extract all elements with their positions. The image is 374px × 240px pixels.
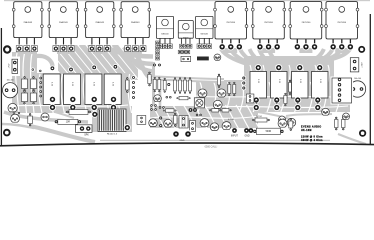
transistor Q1 2SA1943 xyxy=(12,2,43,38)
wire bands right fan xyxy=(221,49,350,78)
transistor Q11 MJE15033 xyxy=(196,16,214,38)
resistor R5 0.22R 5W xyxy=(250,64,267,111)
mounting pad bottom-right xyxy=(358,129,367,138)
resistor Rb3 xyxy=(184,77,187,93)
pad grid c xyxy=(150,104,164,110)
label 0500 CALL xyxy=(205,146,218,149)
resistor R16 10R xyxy=(55,119,81,124)
resistor R13 xyxy=(217,74,220,88)
pad column center xyxy=(131,75,136,100)
resistor R15 xyxy=(220,109,232,112)
svg-text:500R: 500R xyxy=(266,131,272,133)
svg-text:RL040 1.5: RL040 1.5 xyxy=(107,134,118,136)
pad c1 xyxy=(167,83,170,86)
resistor Ra1 xyxy=(153,77,156,92)
transistor Q4 2SA1943 xyxy=(120,2,151,38)
svg-text:2SC5200: 2SC5200 xyxy=(264,22,274,24)
wire band to bias network xyxy=(152,78,224,81)
resistor R4 0.22R 5W xyxy=(104,74,121,111)
pad column U1 xyxy=(156,41,160,60)
pads Q2 xyxy=(53,38,74,52)
resistor R6 0.22R 5W xyxy=(271,64,288,111)
resistor pair right xyxy=(335,117,346,130)
svg-text:SPK: SPK xyxy=(84,135,89,137)
resistor R3 0.22R 5W xyxy=(85,74,102,111)
transistor Q25 xyxy=(343,113,350,119)
pads Q7 xyxy=(294,39,318,51)
white pocket left xyxy=(37,52,66,71)
pads Q8 xyxy=(330,39,354,51)
pads Q6 xyxy=(256,39,280,51)
resistor R20 NFB xyxy=(253,128,283,134)
transistor Q13 xyxy=(214,54,221,60)
resistor Rc2 xyxy=(163,109,177,112)
svg-text:-75V: -75V xyxy=(9,63,11,68)
transistor Q20 xyxy=(200,119,209,127)
pads C xyxy=(153,64,161,67)
box VR2 xyxy=(179,116,188,129)
resistor Rc1 xyxy=(177,96,191,99)
connector -75V xyxy=(9,57,20,77)
svg-text:HK-16M: HK-16M xyxy=(301,129,312,132)
wire bands left-center shallow xyxy=(106,47,153,79)
transistor Q19 xyxy=(164,119,172,127)
resistor R18 xyxy=(28,113,33,126)
label 400W xyxy=(301,139,323,142)
pad cluster xyxy=(178,50,190,54)
svg-text:100+100: 100+100 xyxy=(7,80,14,82)
label 220W xyxy=(301,136,323,139)
pads Q10 xyxy=(180,38,192,48)
board right edge xyxy=(369,14,371,144)
transistor Q6 2SC5200 xyxy=(251,2,285,39)
svg-text:2SC5200: 2SC5200 xyxy=(302,22,312,24)
transistor Q14 xyxy=(198,89,207,97)
mounting pad top-right xyxy=(357,45,366,54)
traces bottom right xyxy=(258,112,366,144)
resistor column left 2 xyxy=(31,76,37,104)
trace gaps xyxy=(12,53,348,130)
label HK-16M xyxy=(301,129,312,132)
transistor Q5 2SC5200 xyxy=(214,2,248,39)
resistor R21 xyxy=(289,118,293,130)
resistor R19 xyxy=(174,113,178,127)
diode bridge box xyxy=(331,77,354,105)
resistor R17 xyxy=(66,110,91,115)
pads Q9 xyxy=(158,38,173,48)
svg-text:2SA1943: 2SA1943 xyxy=(131,21,140,24)
trace bars to output transistor legs xyxy=(20,48,348,54)
resistor R9 xyxy=(126,77,129,92)
capacitor C4 4.7/100 xyxy=(222,119,234,130)
transistor Q26 xyxy=(279,116,286,122)
resistor Rb1 xyxy=(174,77,177,93)
wire center column verticals xyxy=(154,62,161,108)
resistor R14 xyxy=(209,109,221,112)
svg-text:+75V: +75V xyxy=(361,62,363,68)
svg-text:INPUT: INPUT xyxy=(231,136,238,138)
capacitor C1 100+100 xyxy=(3,80,18,98)
copper plane under coil xyxy=(92,106,132,132)
transistor Q21 xyxy=(210,123,218,131)
transistor Q22 xyxy=(278,119,287,127)
svg-text:2SA1943: 2SA1943 xyxy=(59,21,68,24)
pad B4 xyxy=(31,68,35,72)
label EVENS AUDIO xyxy=(301,125,321,128)
transistor Q15 xyxy=(217,89,226,97)
resistor R2 0.22R 5W xyxy=(64,74,81,111)
transistor Q12 xyxy=(8,103,17,111)
resistor R7 0.22R 5W xyxy=(292,64,309,111)
inductor L1 xyxy=(91,109,131,136)
box VR3 xyxy=(190,121,196,132)
mounting pad top-left xyxy=(2,44,12,54)
resistor Rc4 xyxy=(233,82,236,96)
svg-text:MJE15033: MJE15033 xyxy=(201,33,208,35)
resistor Rc3 xyxy=(228,82,231,96)
transistor Q16 xyxy=(213,100,222,108)
copper ground plane right xyxy=(196,56,350,112)
svg-text:2SC5200: 2SC5200 xyxy=(226,22,236,24)
pad A2 xyxy=(50,66,56,72)
transistor Q24 xyxy=(322,108,330,115)
capacitor C3 xyxy=(41,113,49,121)
svg-text:2SA1943: 2SA1943 xyxy=(95,21,104,24)
pad column left xyxy=(39,77,42,98)
svg-text:MJE15032: MJE15032 xyxy=(161,33,168,35)
svg-text:EVENS AUDIO: EVENS AUDIO xyxy=(301,125,321,128)
transistor Q8 2SC5200 xyxy=(325,2,359,39)
pad INPUT xyxy=(231,128,238,138)
pad GND speaker xyxy=(172,130,192,142)
pad B xyxy=(113,64,119,70)
capacitor C2 100+100 xyxy=(348,78,368,99)
svg-text:GND: GND xyxy=(244,136,249,138)
svg-text:PVC/02: PVC/02 xyxy=(256,116,262,118)
connector +75V xyxy=(348,56,365,75)
pads misc left xyxy=(13,111,20,114)
transistor Q9 MJE15032 xyxy=(156,16,173,38)
jumper dark xyxy=(197,57,209,61)
wire S-trace in pocket xyxy=(30,56,53,69)
resistor column left xyxy=(22,76,28,104)
pads Q3 xyxy=(89,38,110,52)
resistor Rb2 xyxy=(179,77,182,93)
transistor Qc1 xyxy=(154,95,162,102)
connector SPK xyxy=(76,125,93,137)
trimmer VR1 xyxy=(194,98,204,108)
pad B3 xyxy=(38,69,42,73)
board bottom edge xyxy=(0,143,374,146)
resistor R23 xyxy=(284,93,287,106)
pad column right bank xyxy=(241,76,246,91)
pad A xyxy=(91,65,97,71)
pads D xyxy=(189,108,197,112)
pads Q5 xyxy=(219,39,243,51)
trace along bottom edge xyxy=(100,139,330,141)
mounting pad bottom-left xyxy=(2,128,11,137)
resistor R22 xyxy=(252,116,269,122)
svg-text:400W @ 4 Ohm: 400W @ 4 Ohm xyxy=(301,139,323,142)
box D1 xyxy=(246,94,254,103)
transistor Q17 xyxy=(11,114,20,122)
resistor R1 0.22R 5W xyxy=(43,74,60,111)
transistor Q10 MJE340 xyxy=(178,21,193,40)
svg-text:10R: 10R xyxy=(66,122,71,124)
svg-text:2SA1943: 2SA1943 xyxy=(24,21,33,24)
relay box xyxy=(181,56,191,61)
copper plane bottom center xyxy=(150,106,258,128)
box E xyxy=(137,116,146,125)
svg-text:100+100: 100+100 xyxy=(354,78,361,80)
resistor R10 xyxy=(289,80,292,95)
transistor Q18 xyxy=(149,119,157,127)
resistor R8 0.22R 5W xyxy=(312,64,329,111)
transistor Q7 2SC5200 xyxy=(289,2,323,39)
svg-text:4.7/100: 4.7/100 xyxy=(228,119,234,121)
pads g1 xyxy=(196,114,202,116)
pad GND xyxy=(244,128,253,138)
pads Q1 xyxy=(16,38,37,52)
board top edge xyxy=(4,0,370,2)
pad B2 xyxy=(68,67,74,73)
copper ground plane left xyxy=(12,52,130,113)
resistor Ra2 xyxy=(158,77,161,92)
transistor Q3 2SA1943 xyxy=(84,2,115,38)
pad c2 xyxy=(166,96,172,98)
resistor Ra3 xyxy=(163,78,166,93)
transistor Q23 xyxy=(287,118,295,126)
pads Q11 xyxy=(197,38,212,48)
resistor Rb4 xyxy=(189,77,192,93)
board left edge xyxy=(0,28,2,145)
svg-text:0500 CALL!: 0500 CALL! xyxy=(205,146,218,149)
pads F xyxy=(159,117,162,128)
resistor R11 xyxy=(148,72,151,86)
pads Q4 xyxy=(125,38,146,52)
svg-text:GND: GND xyxy=(180,140,185,142)
svg-text:2SC5200: 2SC5200 xyxy=(337,22,347,24)
traces bottom left xyxy=(2,112,95,142)
transistor Q2 2SA1943 xyxy=(48,2,79,38)
